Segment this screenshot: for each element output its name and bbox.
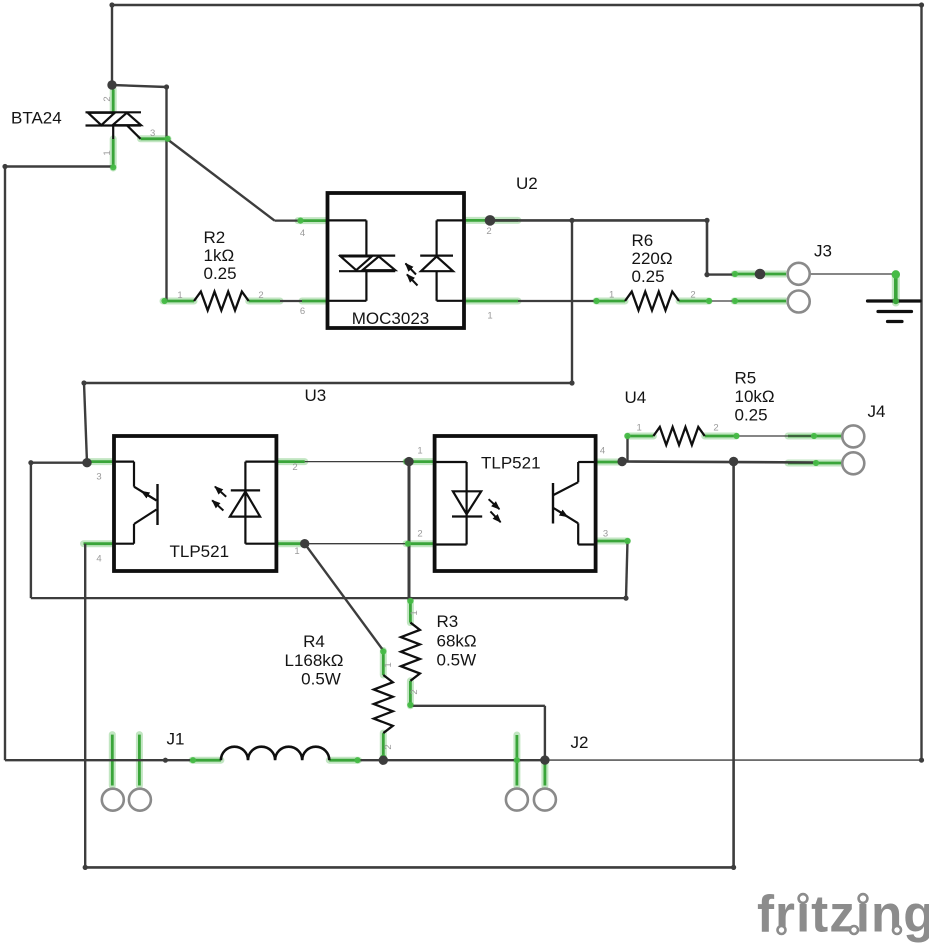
svg-text:2: 2 [409,689,420,694]
svg-text:2: 2 [258,290,263,301]
svg-text:220Ω: 220Ω [632,249,673,268]
svg-text:2: 2 [486,226,491,237]
svg-text:6: 6 [300,306,305,317]
svg-text:10kΩ: 10kΩ [735,387,775,406]
svg-text:U2: U2 [516,174,538,193]
svg-text:4: 4 [300,228,305,239]
svg-text:R3: R3 [437,612,459,631]
svg-text:2: 2 [292,462,297,473]
svg-text:1: 1 [487,311,492,322]
svg-text:2: 2 [102,96,113,101]
svg-text:1: 1 [609,290,614,301]
svg-text:1: 1 [177,290,182,301]
svg-text:R4: R4 [303,632,325,651]
svg-text:2: 2 [713,423,718,434]
svg-text:L168kΩ: L168kΩ [284,651,343,670]
svg-text:BTA24: BTA24 [11,109,62,128]
svg-text:3: 3 [96,472,101,483]
svg-text:J3: J3 [814,242,832,261]
svg-text:1: 1 [417,446,422,457]
svg-text:1kΩ: 1kΩ [204,246,235,265]
svg-text:R2: R2 [204,228,226,247]
svg-text:2: 2 [417,529,422,540]
svg-text:68kΩ: 68kΩ [437,632,477,651]
svg-text:0.5W: 0.5W [301,670,341,689]
svg-text:R5: R5 [735,369,757,388]
svg-text:1: 1 [383,662,394,667]
svg-text:3: 3 [603,529,608,540]
svg-text:0.25: 0.25 [204,264,237,283]
svg-text:J1: J1 [167,730,185,749]
svg-text:R6: R6 [632,231,654,250]
svg-text:U4: U4 [625,388,647,407]
svg-text:4: 4 [96,554,101,565]
svg-text:2: 2 [383,744,394,749]
svg-text:TLP521: TLP521 [170,542,230,561]
svg-text:1: 1 [294,546,299,557]
svg-text:1: 1 [637,423,642,434]
svg-text:J4: J4 [868,402,886,421]
svg-text:1: 1 [409,610,420,615]
svg-text:TLP521: TLP521 [481,454,541,473]
svg-text:0.25: 0.25 [632,267,665,286]
svg-text:1: 1 [102,150,113,155]
svg-text:2: 2 [690,290,695,301]
svg-text:0.25: 0.25 [735,406,768,425]
svg-text:MOC3023: MOC3023 [352,309,429,328]
svg-text:U3: U3 [305,386,327,405]
svg-text:3: 3 [150,128,155,139]
svg-text:J2: J2 [571,733,589,752]
svg-text:4: 4 [600,446,605,457]
svg-text:0.5W: 0.5W [437,651,477,670]
